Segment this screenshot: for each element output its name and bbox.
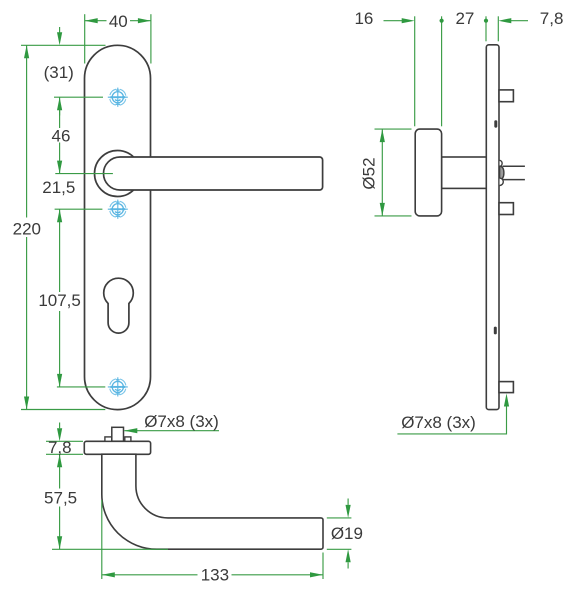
screw position marker 3 <box>108 377 128 396</box>
svg-text:21,5: 21,5 <box>42 178 75 197</box>
arrow 7,8 <box>498 18 511 23</box>
spindle lines <box>503 165 525 167</box>
screw boss tab 2 (side view) <box>499 203 513 215</box>
grip bottom reference line <box>52 548 168 550</box>
svg-text:220: 220 <box>13 219 41 238</box>
screw 2 reference line <box>55 208 103 210</box>
svg-text:16: 16 <box>354 9 373 28</box>
dim (31) arrow tails <box>59 27 61 33</box>
svg-text:Ø7x8 (3x): Ø7x8 (3x) <box>144 412 219 431</box>
arrows O19 <box>346 505 351 518</box>
backplate (side view) <box>486 45 499 410</box>
bottom reference line <box>21 409 105 411</box>
spring cover arc lower (side view) <box>500 178 504 185</box>
dim O52 line <box>381 129 383 216</box>
label O7x8 leader (bottom view) <box>124 430 219 432</box>
svg-text:(31): (31) <box>44 63 74 82</box>
slot tick lower (side view) <box>494 327 497 335</box>
arrows dim 220 <box>24 45 29 58</box>
dim 220 line <box>26 45 28 217</box>
arrow up onto slab bottom <box>57 454 62 467</box>
svg-text:46: 46 <box>52 127 71 146</box>
top reference line <box>21 44 106 46</box>
dim 46 line <box>59 97 61 128</box>
dim texts side view <box>354 9 563 432</box>
handle centre reference line <box>55 173 113 175</box>
arrow up to tab 3 <box>504 394 509 407</box>
spring cover arc upper (side view) <box>500 160 503 166</box>
extension lines rose <box>414 16 416 126</box>
lever handle (front view) <box>104 157 323 190</box>
dim 40 extension lines <box>84 14 86 63</box>
dim texts bottom view <box>44 412 363 585</box>
svg-text:133: 133 <box>201 566 229 585</box>
svg-text:Ø19: Ø19 <box>331 524 363 543</box>
arrow left to screw boss <box>124 428 137 433</box>
arrow down onto centre line <box>57 161 62 174</box>
plate slab (bottom view) <box>84 441 150 454</box>
dot terminator 27 left <box>440 19 444 23</box>
svg-text:57,5: 57,5 <box>44 488 77 507</box>
screw boss tab 1 (side view) <box>499 90 513 102</box>
dim 133 extension lines <box>101 500 103 579</box>
arrows dim 40 <box>85 18 98 23</box>
screw position marker 2 <box>108 200 128 219</box>
slot tick upper (side view) <box>494 120 497 127</box>
boss step left (bottom view) <box>105 437 112 441</box>
dim texts front view <box>13 12 128 310</box>
extension lines plate <box>485 16 487 41</box>
arrow down onto screw3 line <box>57 374 62 387</box>
arrow 16 <box>402 18 415 23</box>
dim 133 line <box>102 574 198 576</box>
svg-text:40: 40 <box>109 12 128 31</box>
handle neck (side view) <box>442 157 487 188</box>
dim 107,5 line <box>59 209 61 292</box>
arrows 133 <box>102 572 115 577</box>
screw boss (bottom view) <box>112 427 124 441</box>
dot terminator 27 right <box>484 19 488 23</box>
dim 7,8 leader tail <box>511 20 529 22</box>
arrow down onto grip bottom 57,5 <box>57 536 62 549</box>
arrow up onto screw1 line <box>57 97 62 110</box>
boss step right (bottom view) <box>125 437 131 441</box>
dim 7,8 arrow tails <box>59 423 61 429</box>
backplate (front view, long rounded plate) <box>85 45 151 409</box>
dim O19 reference lines <box>327 517 352 519</box>
dim O19 arrow tails <box>347 499 349 505</box>
arrow down onto plate top (31) <box>57 32 62 45</box>
rose (side view) <box>415 129 441 216</box>
svg-text:Ø7x8 (3x): Ø7x8 (3x) <box>401 413 476 432</box>
dim O52 extension lines <box>375 128 412 130</box>
spindle end capsule (side view) <box>500 166 504 179</box>
svg-text:27: 27 <box>455 9 474 28</box>
screw 1 reference line <box>54 96 103 98</box>
handle profile (bottom view) <box>102 454 323 549</box>
euro profile cylinder cutout <box>104 278 134 333</box>
svg-text:7,8: 7,8 <box>540 9 564 28</box>
screw 3 reference line <box>57 386 105 388</box>
dim 57,5 line <box>59 454 61 488</box>
screw boss tab 3 (side view) <box>499 382 513 393</box>
arrows O52 <box>380 129 385 142</box>
svg-text:7,8: 7,8 <box>48 438 72 457</box>
arrow down onto slab top 7,8 <box>57 428 62 441</box>
label O7x8 leader (side view) <box>397 404 506 434</box>
dim 16 leader <box>384 20 404 22</box>
arrow up onto screw2 line <box>57 209 62 222</box>
screw position marker 1 <box>108 88 128 107</box>
svg-text:107,5: 107,5 <box>38 291 81 310</box>
svg-text:Ø52: Ø52 <box>360 157 379 189</box>
dim 40 line <box>85 20 107 22</box>
rose outer circle (front view) <box>95 151 141 197</box>
dim 7,8 reference lines <box>46 440 83 442</box>
